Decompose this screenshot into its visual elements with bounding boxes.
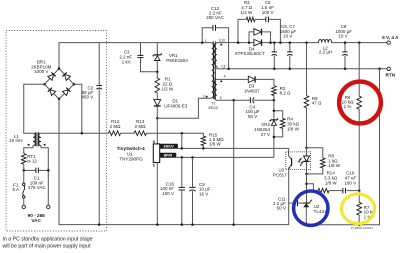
svg-text:D: D xyxy=(153,140,156,144)
node VR2 R4 top xyxy=(273,110,276,113)
IC U1 TinySwitch-4 TNY290PG body xyxy=(153,144,159,163)
optocoupler U3 PC817 box xyxy=(286,152,311,170)
wire output rail L2 to 5V terminal xyxy=(332,42,388,44)
node bridge-right joins sense line xyxy=(81,132,84,135)
wire R15 to EN/UV line xyxy=(202,146,204,149)
svg-text:1/8 W: 1/8 W xyxy=(325,180,338,185)
fuse F1 5A xyxy=(23,170,26,205)
capacitor C11 2.2uF 50V xyxy=(289,200,298,206)
svg-text:UF4006-E3: UF4006-E3 xyxy=(164,104,188,109)
resistor R3 4.7ohm 1/2W xyxy=(246,17,255,22)
label C5 1.5 nF 100 V xyxy=(261,0,274,15)
zener VR2 1N5254 and R4 parallel loop xyxy=(274,100,283,119)
svg-text:T1: T1 xyxy=(211,102,215,106)
node TL431 R14 tap xyxy=(305,183,308,186)
wire sense drop to EN/UV line xyxy=(181,133,183,148)
label R9 47 ohm xyxy=(312,96,322,106)
svg-text:275 VAC: 275 VAC xyxy=(28,185,46,190)
dual schottky D4 STPS30L60CT upper diode loop xyxy=(249,29,271,43)
wire between R12 R13 xyxy=(121,132,135,134)
label C8 1000 uF 10 V xyxy=(335,24,352,39)
label D1 UF4006-E3 xyxy=(164,98,188,108)
svg-text:2.2 µH: 2.2 µH xyxy=(319,50,332,55)
svg-text:10 mH: 10 mH xyxy=(9,138,22,143)
svg-text:TL431: TL431 xyxy=(314,209,327,214)
svg-text:1 %: 1 % xyxy=(344,104,352,109)
label C6, C7 1500 uF 10 V xyxy=(280,24,297,39)
label L2 2.2 uH xyxy=(319,45,332,54)
node R7 bottom xyxy=(358,223,361,226)
red annotation circle around R6 xyxy=(339,82,381,124)
diode D3 1N4937 xyxy=(221,76,274,86)
node VR1 C3 junction xyxy=(156,71,159,74)
svg-text:10 V: 10 V xyxy=(283,34,292,39)
node D4 upper right on rail xyxy=(269,41,272,44)
snubber loop R3 C5 xyxy=(238,19,280,42)
wire R9 to opto LED anode xyxy=(306,108,308,148)
output terminal RTN xyxy=(387,67,390,70)
label R14 3.3 kohm 1/8 W xyxy=(324,171,338,186)
svg-text:PC817: PC817 xyxy=(273,173,287,178)
dashed input-stage enclosure box xyxy=(6,31,107,232)
capacitor C2 68uF 450V bulk electrolytic xyxy=(96,43,102,225)
wire AC line-sense from L1 through R12 R13 xyxy=(41,132,109,134)
svg-text:ts 12: ts 12 xyxy=(27,159,37,164)
wire R6 divider top xyxy=(358,43,360,97)
RTN rail wire pin 7,8 to RTN terminal xyxy=(221,68,387,70)
label C3 2.2 nF 1 kV xyxy=(119,50,132,65)
wire R6 bottom to ref node xyxy=(358,109,360,202)
yellow annotation circle around R7 xyxy=(341,194,374,224)
wire secondary return TL431 anode to RTN drop xyxy=(306,69,379,225)
label F1 5 A xyxy=(13,182,20,192)
node BP/M C9 junction xyxy=(191,156,194,159)
label C16 100 nF 100 V xyxy=(160,181,175,196)
optocoupler U3 phototransistor xyxy=(289,152,292,170)
node drain clamp junction xyxy=(156,117,159,120)
optocoupler light arrows xyxy=(298,158,303,167)
label C13 2.2 nF 250 VAC xyxy=(206,6,224,20)
node LED anode R8 junction xyxy=(305,146,308,149)
node VR2 R4 bottom xyxy=(273,136,276,139)
node C13 to DC+ bus xyxy=(201,41,204,44)
node C1 right xyxy=(47,169,50,172)
capacitor C9 10uF 16V xyxy=(189,157,195,224)
resistor R14 3.3kohm 1/8W xyxy=(318,188,329,193)
svg-text:10 V: 10 V xyxy=(338,34,347,39)
svg-text:will be part of main power sup: will be part of main power supply input xyxy=(3,243,92,249)
svg-text:1/8 W: 1/8 W xyxy=(287,126,300,131)
label T1 EE22 xyxy=(208,102,217,110)
label C2 68 uF 450 V xyxy=(82,85,94,99)
node C16 on primary rail xyxy=(181,223,184,226)
svg-text:4: 4 xyxy=(224,75,226,79)
label C4 100 uF 50 V xyxy=(245,104,259,119)
svg-text:1/2 W: 1/2 W xyxy=(161,86,174,91)
node C6 top xyxy=(273,41,276,44)
resistor R7 10kohm 1% xyxy=(357,202,362,215)
label VR2 1N5254 27 V xyxy=(254,122,270,137)
wire C10 to divider node xyxy=(347,190,360,192)
svg-text:100 V: 100 V xyxy=(262,10,274,15)
node U1 source on primary rail xyxy=(156,223,159,226)
wire RT1 to C1 node xyxy=(23,164,25,170)
svg-text:R13: R13 xyxy=(136,119,145,124)
capacitor C1 100nF 275VAC xyxy=(24,168,49,174)
bridge rectifier BR1 xyxy=(43,67,75,100)
shunt regulator U2 TL431 xyxy=(303,200,312,225)
caption text xyxy=(3,236,93,249)
svg-text:2: 2 xyxy=(203,94,205,98)
resistor R12 2Mohm xyxy=(109,131,121,136)
label TinySwitch-4 U1 TNY290PG xyxy=(117,146,145,161)
wire bridge left AC vertex to L1 top-left xyxy=(24,84,45,133)
svg-text:100 V: 100 V xyxy=(344,180,356,185)
svg-text:P6KE150A: P6KE150A xyxy=(166,58,188,63)
label R15 1.5 Mohm 1/8 W xyxy=(209,132,224,146)
transformer T1 EE22 primary winding xyxy=(212,43,214,98)
node snubber right on rail xyxy=(279,41,282,44)
node C7 bottom xyxy=(289,68,292,71)
label L1 10 mH xyxy=(9,134,22,143)
svg-text:RTN: RTN xyxy=(385,72,395,77)
wire R14 to C10 xyxy=(329,190,343,192)
label R6 10 kohm 1% xyxy=(342,95,355,109)
node C6 bottom xyxy=(273,68,276,71)
svg-text:50 V: 50 V xyxy=(248,114,257,119)
label C1 100 nF 275 VAC xyxy=(28,175,46,190)
resistor R1 22ohm 1/2W xyxy=(155,72,160,100)
label RT1 ts12 xyxy=(27,154,37,164)
node C13 RTN junction xyxy=(227,68,230,71)
node C7 top xyxy=(289,41,292,44)
label 90 - 265 VAC xyxy=(28,213,46,223)
transformer secondary winding xyxy=(214,43,216,66)
svg-text:EN/UV: EN/UV xyxy=(164,144,175,148)
output terminal 5V 4A xyxy=(387,41,390,44)
node C1 left xyxy=(23,169,26,172)
dual schottky D4 lower diode on rail xyxy=(254,39,262,45)
zener diode VR2 xyxy=(270,119,279,137)
node snubber left on rail xyxy=(237,41,240,44)
svg-text:5 A: 5 A xyxy=(13,187,20,192)
svg-text:2 MΩ: 2 MΩ xyxy=(110,124,122,129)
svg-text:In a PC standby application in: In a PC standby application input stage xyxy=(3,236,93,242)
resistor R13 2Mohm xyxy=(134,131,146,136)
resistor R15 1.5Mohm xyxy=(201,136,206,145)
label C11 2.2 uF 50 V xyxy=(273,197,286,211)
node D4 upper left on rail xyxy=(248,41,251,44)
label C9 10 uF 16 V xyxy=(199,182,211,197)
wire clamp node to transformer pin 2 xyxy=(157,98,211,118)
TVS diode VR1 P6KE150A xyxy=(153,43,162,72)
node EN/UV R15 junction xyxy=(202,147,205,150)
pin tag BP/M xyxy=(160,153,177,158)
T1 phasing dot bias xyxy=(220,80,222,82)
node pin5 on primary rail xyxy=(232,223,235,226)
T1 phasing dot secondary xyxy=(220,44,222,46)
label R13 2 Mohm xyxy=(135,119,147,129)
label D3 1N4937 xyxy=(244,84,260,94)
inductor L2 2.2uH xyxy=(319,39,332,42)
svg-text:27 V: 27 V xyxy=(261,132,270,137)
svg-text:2 MΩ: 2 MΩ xyxy=(135,124,147,129)
capacitor C6 1500uF 10V xyxy=(272,43,277,69)
node RTN drop xyxy=(378,68,381,71)
capacitor C13 2.2nF 250VAC Y-cap xyxy=(202,25,228,69)
AC input terminal right xyxy=(47,205,50,208)
label R3 4.7 ohm 1/2 W xyxy=(241,0,254,15)
wire secondary rail pin 9,10 to L2 xyxy=(217,42,319,44)
label U3 PC817 xyxy=(273,168,287,178)
node EN/UV sense junction xyxy=(181,147,184,150)
wire U1 source pin to primary return rail xyxy=(156,163,158,225)
L1 phasing dot left xyxy=(28,144,30,146)
capacitor C5 1.5nF 100V xyxy=(265,17,267,23)
svg-text:PI-6859-012012: PI-6859-012012 xyxy=(351,226,373,230)
node C2 on primary rail xyxy=(98,223,101,226)
label R7 10 kohm 1% xyxy=(364,205,377,220)
node C8 top xyxy=(344,41,347,44)
node C4 bias return xyxy=(232,99,235,102)
svg-text:5 V, 4 A: 5 V, 4 A xyxy=(382,35,399,40)
wire TL431 ref to C11 xyxy=(298,202,303,204)
blue annotation circle around U2 TL431 xyxy=(294,191,328,225)
wire opto cathode down to TL431 xyxy=(306,174,308,203)
svg-text:50 V: 50 V xyxy=(277,206,286,211)
capacitor C16 100nF 100V xyxy=(179,157,185,224)
label R1 22 ohm 1/2 W xyxy=(161,77,174,92)
svg-text:TNY290PG: TNY290PG xyxy=(119,157,143,162)
transformer core lines xyxy=(213,41,215,99)
node BP/M C16 junction xyxy=(181,156,184,159)
svg-text:47 Ω: 47 Ω xyxy=(312,101,322,106)
svg-text:7,8: 7,8 xyxy=(221,64,226,68)
svg-text:EE22: EE22 xyxy=(208,106,217,110)
transformer bias winding xyxy=(214,79,216,100)
resistor R9 47ohm xyxy=(304,96,309,108)
svg-text:450 V: 450 V xyxy=(82,94,94,99)
AC input terminal left xyxy=(22,205,25,208)
label VR1 P6KE150A xyxy=(166,53,188,63)
resistor R8 1kohm 1/8W loop xyxy=(307,148,326,174)
node R9 top xyxy=(305,41,308,44)
label R8 1 kohm 1/8 W xyxy=(328,154,341,169)
wire R7 bottom to return line xyxy=(358,215,360,225)
wire R14 tap jog xyxy=(307,184,319,191)
pin tag EN/UV xyxy=(160,144,178,149)
wire R13 to R15 corner xyxy=(146,133,203,136)
label D4 STPS30L60CT xyxy=(235,46,266,56)
svg-text:1000 V: 1000 V xyxy=(34,69,48,74)
wire secondary bottom pin 7,8 lead xyxy=(217,66,221,69)
svg-text:STPS30L60CT: STPS30L60CT xyxy=(235,51,266,56)
resistor R4 30kohm 1/8W xyxy=(274,118,285,136)
resistor R6 10kohm 1% xyxy=(357,96,362,109)
wire L1 bottom leads xyxy=(24,146,33,154)
wire BP/M pin line to bias feedback corner xyxy=(160,137,274,158)
node C9 on primary rail xyxy=(191,223,194,226)
svg-text:1/8 W: 1/8 W xyxy=(209,142,222,147)
label R4 30 kohm 1/8 W xyxy=(287,117,300,132)
svg-text:R12: R12 xyxy=(111,119,120,124)
node C4 right R2 bottom xyxy=(273,99,276,102)
svg-text:1/2 W: 1/2 W xyxy=(241,10,254,15)
svg-text:BP/M: BP/M xyxy=(164,153,172,157)
svg-text:1/8 W: 1/8 W xyxy=(328,163,341,168)
node divider ref xyxy=(358,189,361,192)
svg-text:250 VAC: 250 VAC xyxy=(206,15,224,20)
T1 phasing dot primary xyxy=(206,96,208,98)
resistor R2 8.2ohm xyxy=(272,86,277,101)
capacitor C8 1000uF 10V xyxy=(342,43,347,69)
node sense line to EN/UV drop xyxy=(181,132,184,135)
capacitor C3 2.2nF 1kV xyxy=(138,43,158,72)
label R2 8.2 ohm xyxy=(280,86,292,96)
svg-text:1N4937: 1N4937 xyxy=(244,89,260,94)
capacitor C7 1500uF 10V xyxy=(287,43,292,69)
label C10 47 nF 100 V xyxy=(344,171,356,186)
node R6 top xyxy=(358,41,361,44)
label R12 2 Mohm xyxy=(110,119,122,129)
common-mode choke L1 10mH xyxy=(33,132,41,146)
wire drain node down to U1 drain pin xyxy=(156,118,158,144)
svg-text:VAC: VAC xyxy=(31,218,41,223)
svg-text:100 V: 100 V xyxy=(162,191,174,196)
capacitor C10 47nF 100V xyxy=(342,188,344,193)
svg-text:16 V: 16 V xyxy=(199,191,208,196)
node LED cathode R8 junction xyxy=(305,173,308,176)
svg-text:1 kV: 1 kV xyxy=(122,59,131,64)
wire DC+ bus from bridge to transformer pin 1 xyxy=(59,43,212,69)
L1 phasing dot right xyxy=(44,144,46,146)
svg-text:U1: U1 xyxy=(127,151,133,156)
label U2 TL431 xyxy=(314,204,327,214)
svg-text:8.2 Ω: 8.2 Ω xyxy=(280,91,292,96)
wire DC- from bridge bottom along primary return rail to opto emitter xyxy=(59,99,289,225)
wire bias top pin 4 lead start xyxy=(217,78,221,80)
svg-text:5: 5 xyxy=(220,96,222,100)
wire bridge right AC vertex down to line-sense node xyxy=(74,84,82,133)
wire 5V rail down through R9 xyxy=(306,43,308,96)
wire bias return pin5 down to primary rail xyxy=(233,100,235,224)
wire EN/UV pin line to optocoupler collector xyxy=(160,148,289,152)
node C8 bottom xyxy=(344,68,347,71)
svg-text:9,10: 9,10 xyxy=(219,39,225,43)
thermistor RT1 xyxy=(21,154,26,165)
svg-text:R3: R3 xyxy=(244,0,250,5)
svg-text:C5: C5 xyxy=(265,0,271,5)
svg-text:1: 1 xyxy=(205,39,207,43)
optocoupler U3 LED xyxy=(304,148,310,174)
diode D1 UF4006-E3 xyxy=(154,100,161,119)
capacitor C4 100uF 50V xyxy=(217,97,274,103)
label BR1 2KBP10M 1000 V xyxy=(31,60,52,75)
